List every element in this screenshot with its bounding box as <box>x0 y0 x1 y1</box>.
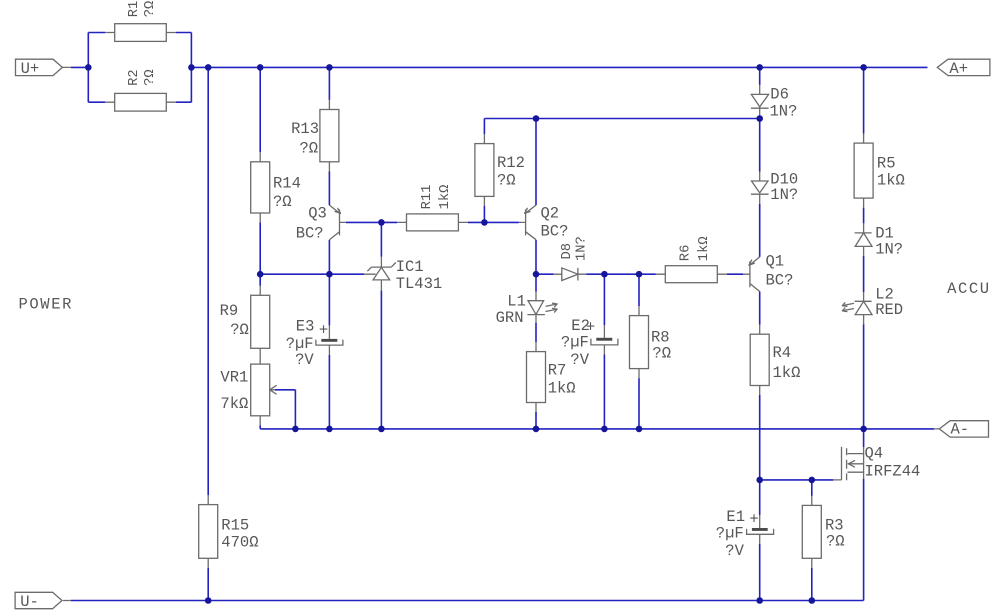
svg-text:BC?: BC? <box>296 225 324 243</box>
svg-text:R5: R5 <box>877 155 896 173</box>
svg-text:R2: R2 <box>127 69 142 86</box>
svg-text:L1: L1 <box>507 292 526 310</box>
svg-text:U-: U- <box>20 593 39 611</box>
svg-text:BC?: BC? <box>541 223 569 241</box>
svg-text:GRN: GRN <box>496 309 524 327</box>
svg-text:VR1: VR1 <box>220 369 248 387</box>
svg-text:U+: U+ <box>21 60 40 78</box>
svg-text:?Ω: ?Ω <box>497 172 516 190</box>
svg-text:1kΩ: 1kΩ <box>696 236 712 261</box>
svg-text:1kΩ: 1kΩ <box>877 172 905 190</box>
svg-text:?Ω: ?Ω <box>300 139 319 157</box>
svg-text:R9: R9 <box>220 302 239 320</box>
svg-text:POWER: POWER <box>19 296 74 314</box>
svg-text:1kΩ: 1kΩ <box>437 185 453 210</box>
svg-text:R13: R13 <box>291 120 319 138</box>
svg-text:A-: A- <box>951 421 970 439</box>
svg-text:D8: D8 <box>560 243 575 260</box>
svg-text:+: + <box>586 319 595 337</box>
svg-text:+: + <box>749 511 758 529</box>
svg-text:?µF: ?µF <box>286 335 314 353</box>
svg-text:R11: R11 <box>420 185 435 210</box>
svg-text:?V: ?V <box>570 351 589 369</box>
svg-text:A+: A+ <box>949 60 968 78</box>
svg-text:?Ω: ?Ω <box>143 1 158 18</box>
svg-text:?Ω: ?Ω <box>273 193 292 211</box>
svg-text:Q2: Q2 <box>541 205 560 223</box>
svg-text:7kΩ: 7kΩ <box>220 395 248 413</box>
svg-text:1N?: 1N? <box>770 103 798 121</box>
svg-text:?µF: ?µF <box>716 525 744 543</box>
svg-text:R1: R1 <box>127 1 142 18</box>
svg-text:R6: R6 <box>679 245 694 262</box>
svg-text:1N?: 1N? <box>575 236 590 261</box>
svg-text:R12: R12 <box>497 154 525 172</box>
svg-text:?Ω: ?Ω <box>826 532 845 550</box>
svg-text:470Ω: 470Ω <box>221 534 258 552</box>
svg-text:R14: R14 <box>273 175 301 193</box>
svg-text:D6: D6 <box>770 85 789 103</box>
svg-text:?V: ?V <box>295 351 314 369</box>
svg-text:RED: RED <box>875 301 903 319</box>
svg-text:1N?: 1N? <box>875 241 903 259</box>
svg-text:?V: ?V <box>725 542 744 560</box>
svg-text:R4: R4 <box>773 344 792 362</box>
svg-text:Q1: Q1 <box>766 253 785 271</box>
svg-text:TL431: TL431 <box>396 275 443 293</box>
svg-text:E3: E3 <box>296 318 315 336</box>
svg-text:R15: R15 <box>221 517 249 535</box>
svg-text:1N?: 1N? <box>770 186 798 204</box>
svg-text:1kΩ: 1kΩ <box>548 380 576 398</box>
svg-text:BC?: BC? <box>766 272 794 290</box>
svg-text:?Ω: ?Ω <box>230 321 249 339</box>
svg-text:1kΩ: 1kΩ <box>773 364 801 382</box>
svg-text:?Ω: ?Ω <box>143 69 158 86</box>
svg-text:IC1: IC1 <box>396 258 424 276</box>
svg-text:E1: E1 <box>726 508 745 526</box>
svg-text:?µF: ?µF <box>561 333 589 351</box>
svg-text:Q3: Q3 <box>308 205 327 223</box>
svg-text:+: + <box>319 322 328 340</box>
svg-text:ACCU: ACCU <box>947 280 991 298</box>
svg-text:R7: R7 <box>548 362 567 380</box>
svg-text:Q4: Q4 <box>865 445 884 463</box>
svg-text:?Ω: ?Ω <box>652 345 671 363</box>
svg-text:IRFZ44: IRFZ44 <box>865 463 921 481</box>
